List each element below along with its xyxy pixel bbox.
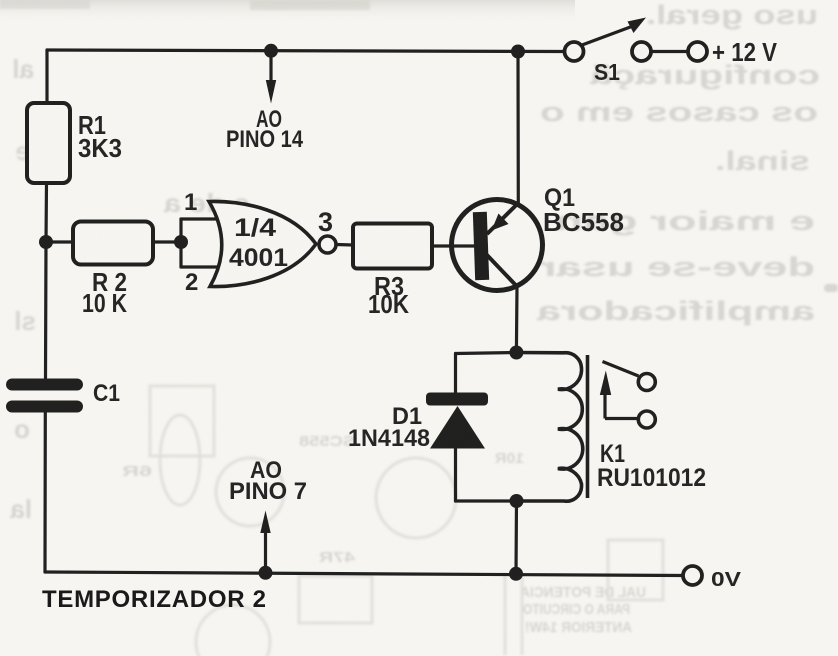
wire diode anode down	[454, 448, 457, 501]
relay K1 coil	[516, 353, 582, 502]
NOR gate U1 1/4 4001	[209, 201, 316, 286]
wire R1 to node A	[44, 183, 48, 242]
wire relay top left to diode	[456, 353, 517, 354]
capacitor C1	[12, 385, 77, 407]
arrow to pin 7	[260, 511, 270, 569]
wire input bracket	[179, 219, 182, 267]
resistor R1	[27, 103, 70, 183]
gate output bubble	[319, 236, 336, 253]
wire top rail	[47, 50, 563, 52]
wire C1 to bottom rail	[43, 413, 46, 572]
relay contact arm	[600, 362, 656, 429]
wire gate output to R3	[336, 243, 353, 247]
junction dot relay top	[509, 346, 523, 360]
svg-text:TEMPORIZADOR 2: TEMPORIZADOR 2	[42, 586, 266, 613]
junction dot bottom rail right	[509, 567, 523, 581]
junction dot bottom rail pin7	[259, 566, 273, 580]
node A junction dot	[39, 235, 53, 249]
diode D1 1N4148	[426, 393, 488, 449]
junction dot relay bottom	[510, 494, 524, 508]
wire relay node to bottom rail	[514, 501, 518, 574]
arrow to pin 14	[266, 57, 276, 104]
junction dot top rail emitter	[511, 45, 525, 59]
switch S1	[565, 18, 647, 62]
junction dot gate input	[174, 235, 188, 249]
resistor R3	[353, 224, 432, 269]
relay core bar	[586, 355, 590, 498]
wire Q1 emitter to top rail	[516, 52, 519, 204]
+12V terminal	[632, 42, 707, 61]
transistor Q1 BC558	[452, 200, 543, 291]
wire left vertical	[45, 50, 48, 103]
wire R2 to gate input node	[153, 240, 181, 243]
wire R3 to Q1 base	[432, 244, 474, 247]
resistor R2	[73, 222, 153, 265]
wire node A to R2	[46, 240, 73, 243]
wire Q1 collector to relay node	[515, 287, 519, 352]
wire node A to C1	[44, 242, 48, 378]
wire pin 2 stub	[181, 265, 224, 268]
0V terminal	[683, 566, 702, 585]
junction dot top rail pin14	[264, 44, 278, 58]
bleed schematic shapes	[150, 386, 663, 656]
wire pin 1 stub	[181, 217, 224, 220]
wire bottom rail	[45, 572, 683, 576]
wire diode branch down	[454, 354, 457, 394]
wire relay bottom left	[456, 499, 517, 502]
